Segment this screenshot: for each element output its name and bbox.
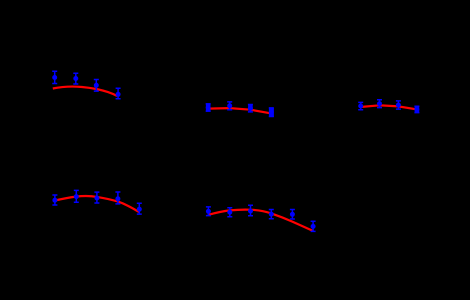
- fit curve panel 1 (top-left): [53, 87, 117, 96]
- panel 5 (bottom-middle) data point 2 with error bar: [227, 208, 232, 217]
- panel 4 (bottom-left) data point 3 with error bar: [94, 192, 99, 203]
- panel 3 (top-right) data point 2 with error bar: [377, 100, 382, 108]
- panel 3 (top-right) data point 3 with error bar: [396, 101, 401, 109]
- panel 1 (top-left) data point 1 with error bar: [52, 71, 57, 83]
- panel 5 (bottom-middle) data point 6 with error bar: [311, 221, 316, 231]
- panel 2 (top-middle) data point 1 with error bar: [206, 103, 211, 111]
- panel 5 (bottom-middle) data point 1 with error bar: [206, 207, 211, 216]
- panel 2 (top-middle) data point 4 with error bar: [269, 108, 274, 117]
- panel 2 (top-middle) data point 2 with error bar: [227, 102, 232, 110]
- panel 4 (bottom-left) data point 1 with error bar: [52, 195, 57, 205]
- panel 4 (bottom-left) data point 4 with error bar: [115, 192, 120, 204]
- fit curve panel 4 (bottom-left): [53, 196, 140, 212]
- panel 4 (bottom-left) data point 2 with error bar: [74, 190, 79, 202]
- panel 1 (top-left) data point 4 with error bar: [116, 88, 121, 99]
- panel 1 (top-left) data point 2 with error bar: [73, 73, 78, 84]
- fit curve panel 2 (top-middle): [208, 108, 272, 114]
- fit curve panel 3 (top-right): [361, 105, 418, 109]
- panel 1 (top-left) data point 3 with error bar: [94, 80, 99, 92]
- fit curve panel 5 (bottom-middle): [208, 210, 313, 231]
- panel 3 (top-right) data point 1 with error bar: [358, 102, 363, 109]
- panel 2 (top-middle) data point 3 with error bar: [248, 104, 253, 112]
- panel 5 (bottom-middle) data point 5 with error bar: [290, 210, 295, 220]
- panel 3 (top-right) data point 4 with error bar: [414, 106, 419, 113]
- panel 5 (bottom-middle) data point 4 with error bar: [269, 210, 274, 219]
- panel 5 (bottom-middle) data point 3 with error bar: [248, 205, 253, 215]
- panel 4 (bottom-left) data point 5 with error bar: [137, 203, 142, 214]
